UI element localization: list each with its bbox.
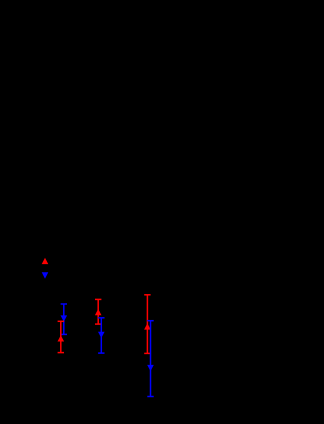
errorbar red point 1 (58, 321, 64, 352)
errorbar red point 2 (95, 299, 101, 324)
marker red point 2 (triangle up) (95, 309, 102, 315)
errorbar blue point 1 (61, 304, 67, 334)
marker blue point 2 (triangle down) (98, 332, 105, 338)
marker red point 1 (triangle up) (58, 335, 65, 341)
marker blue point 3 (triangle down) (147, 365, 154, 371)
marker blue point 1 (triangle down) (61, 315, 68, 321)
errorbar blue point 3 (147, 321, 153, 397)
errorbar red point 3 (144, 295, 150, 354)
legend marker blue (triangle down) (42, 272, 49, 279)
errorbar blue point 2 (98, 318, 104, 353)
marker red point 3 (triangle up) (144, 323, 151, 329)
legend marker red (triangle up) (42, 258, 49, 264)
